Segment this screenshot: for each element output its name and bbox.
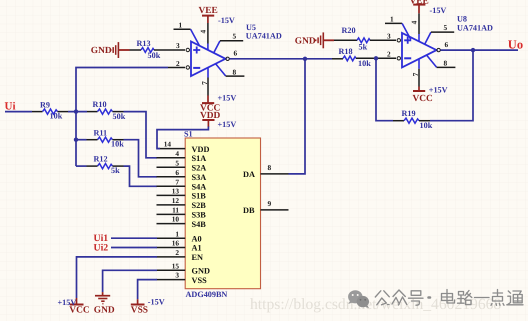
wire R13 to U5 pin3 [154,49,185,51]
svg-text:R11: R11 [94,128,108,137]
wire GND pin15 to ground [103,270,157,292]
svg-text:5k: 5k [111,166,120,175]
op-amp U8 [385,13,493,86]
svg-text:4: 4 [175,149,179,158]
svg-text:S3A: S3A [192,173,207,182]
wire Ui2 to A1 [111,247,157,249]
watermark url [250,296,501,313]
tong [507,291,523,305]
svg-text:VDD: VDD [192,145,210,154]
svg-text:VEE: VEE [199,6,218,16]
wire U8 output to Uo [441,49,519,51]
svg-text:Ui2: Ui2 [94,243,109,254]
dot [429,296,431,299]
pin 2 EN [157,248,204,262]
watermark text gongzhonghao dianlu yidiantong [375,290,523,306]
svg-text:S2A: S2A [192,164,207,173]
yi [475,297,490,299]
pin 1 stub U5 [174,28,191,30]
svg-text:10k: 10k [111,140,124,149]
svg-text:10k: 10k [358,59,371,68]
node junction DA drop [303,57,307,61]
resistor R13 [137,39,161,60]
svg-text:R19: R19 [402,109,416,118]
svg-text:-15V: -15V [148,297,165,306]
svg-text:R20: R20 [342,26,356,35]
wire R19 tap down [376,58,404,120]
wire junction down to DA pin8 [289,59,306,174]
svg-text:8: 8 [268,163,272,172]
svg-text:-15V: -15V [430,6,447,15]
pin 14 VDD [157,140,210,154]
svg-text:8: 8 [444,59,448,68]
pin 16 A1 [157,239,202,253]
gong [375,291,389,305]
svg-text:Uo: Uo [508,37,523,51]
pin 7 vertical U5 [207,68,209,78]
net label Ui2 [94,243,109,254]
wire R9 to node [58,111,98,113]
svg-text:VSS: VSS [192,276,208,285]
svg-text:3: 3 [175,271,179,280]
op-amp U5 [174,21,282,96]
power VDD above S1 [200,111,236,129]
pin 9 DB [243,199,289,215]
svg-text:+15V: +15V [218,120,237,129]
svg-text:4: 4 [199,29,208,33]
svg-text:9: 9 [268,199,272,208]
wire R12 to S4A pin7 [113,166,158,186]
svg-text:A0: A0 [192,234,202,243]
svg-text:S3B: S3B [192,211,207,220]
svg-text:UA741AD: UA741AD [457,24,493,33]
svg-text:S2B: S2B [192,201,207,210]
resistor R11 [94,128,125,148]
svg-text:5: 5 [444,23,448,32]
svg-text:6: 6 [234,49,238,58]
svg-text:1: 1 [175,229,179,238]
wire GND to R20 [334,39,357,41]
svg-text:UA741AD: UA741AD [246,32,282,41]
watermark wechat logo [348,290,369,308]
svg-text:7: 7 [200,81,209,85]
svg-text:10: 10 [172,215,180,224]
svg-text:2: 2 [176,59,180,68]
svg-text:R13: R13 [137,39,151,48]
svg-text:+15V: +15V [218,94,237,103]
pin 13 S1B [157,187,207,201]
svg-text:U8: U8 [457,14,467,23]
svg-text:+15V: +15V [58,298,77,307]
svg-text:13: 13 [172,187,180,196]
power VEE above U5 [199,6,235,25]
svg-text:DA: DA [243,170,255,179]
wire R20 to U8 pin3 [370,39,396,41]
svg-text:S1B: S1B [192,192,207,201]
svg-text:Ui: Ui [5,101,16,113]
multiplexer S1 ADG409BN [184,129,261,299]
hao [409,291,424,305]
svg-text:1: 1 [390,15,394,24]
power VEE above U8 [410,0,447,15]
svg-text:7: 7 [175,177,179,186]
wire VDD to pin14 [157,127,208,149]
wire R10 to S1A pin4 [113,112,158,158]
wire U5 output to R18 [230,58,344,60]
svg-text:R12: R12 [94,154,108,163]
pin 6 S3A [157,168,207,182]
pin 1 stub U8 [385,22,402,24]
wire R11 to S3A pin6 [113,140,158,177]
pin 1 A0 [157,229,202,243]
svg-text:DB: DB [243,206,255,215]
pin 4 vertical U8 [418,13,420,34]
svg-text:VCC: VCC [413,94,434,104]
pin 5 stub U8 [425,32,431,44]
pin 3 VSS [157,271,208,285]
svg-text:R18: R18 [339,47,353,56]
svg-text:R10: R10 [93,100,107,109]
svg-text:10k: 10k [50,111,63,120]
svg-text:5: 5 [175,158,179,167]
svg-text:GND: GND [91,46,112,56]
svg-text:ADG409BN: ADG409BN [186,290,228,299]
svg-text:8: 8 [233,67,237,76]
resistor R19 [402,109,433,130]
svg-text:10k: 10k [420,121,433,130]
ground GND left [91,42,130,58]
pin 15 GND [157,261,210,275]
pin 5 stub U5 [214,41,220,53]
svg-text:2: 2 [175,248,179,257]
svg-text:VSS: VSS [131,305,148,315]
resistor R10 [93,100,126,121]
pin 10 S4B [157,215,207,229]
svg-text:R9: R9 [40,101,50,110]
node junction R19 tap [374,56,378,60]
svg-text:11: 11 [172,206,179,215]
svg-text:A1: A1 [192,244,202,253]
svg-text:GND: GND [192,267,210,276]
wire Ui to R9 [5,111,43,113]
svg-text:5: 5 [233,32,237,41]
power VCC bottom left [58,298,90,315]
wire Ui1 to A0 [111,237,157,239]
power VCC below U5 [200,94,236,114]
svg-text:+15V: +15V [429,85,448,94]
pin 11 S3B [157,206,207,220]
resistor R12 [94,154,121,175]
wire R19 to output node [419,50,473,121]
svg-text:1: 1 [179,21,183,30]
resistor R18 [339,47,372,68]
wire node down bus [75,112,77,167]
zhong [392,290,407,305]
svg-text:3: 3 [176,41,180,50]
svg-text:12: 12 [172,196,180,205]
pin 8 stub U8 [427,55,437,67]
pin 5 S2A [157,158,207,172]
wire R18 to U8 pin2 [356,57,396,59]
resistor R20 [342,26,371,51]
ground GND bottom [94,292,115,315]
pin 7 vertical U8 [418,59,420,69]
svg-text:7: 7 [411,72,420,76]
wire R11 to bus [76,139,98,141]
node junction output [471,48,475,52]
pin 7 S4A [157,177,207,191]
svg-text:S1A: S1A [192,154,207,163]
net label Uo [508,37,523,51]
wire R12 to bus [76,165,98,167]
svg-text:50k: 50k [113,112,126,121]
dian [442,290,455,304]
svg-text:-15V: -15V [218,16,235,25]
svg-text:EN: EN [192,253,204,262]
wire EN to VCC bottom [77,257,158,298]
power VSS bottom [131,297,165,315]
svg-text:6: 6 [445,40,449,49]
resistor R9 [40,101,63,121]
svg-text:14: 14 [164,140,172,149]
diann [491,290,504,306]
ground GND middle [295,32,334,48]
svg-text:GND: GND [94,305,115,315]
pin 8 stub U5 [216,64,226,76]
wire VSS pin3 to VSS symbol [138,280,157,300]
svg-text:S1: S1 [184,129,193,138]
pin 4 S1A [157,149,207,163]
svg-text:4: 4 [410,20,419,24]
pin 8 DA [243,163,289,179]
svg-text:50k: 50k [148,51,161,60]
svg-text:3: 3 [387,32,391,41]
net label Ui1 [94,233,109,244]
pin 12 S2B [157,196,207,210]
wire node up to U5 inverting input [76,68,185,112]
svg-text:GND: GND [295,36,316,46]
lu [458,291,472,305]
wire GND to R13 [130,49,142,51]
node junction R9/R10 [74,109,78,113]
node junction R11 [74,138,78,142]
svg-text:6: 6 [175,168,179,177]
svg-text:16: 16 [172,239,180,248]
svg-text:5k: 5k [359,42,368,51]
svg-text:S4B: S4B [192,220,207,229]
net label Ui [5,101,16,113]
svg-text:S4A: S4A [192,183,207,192]
power VCC below U8 [413,85,448,104]
svg-text:15: 15 [172,261,180,270]
pin 4 vertical U5 [207,23,209,44]
svg-text:2: 2 [387,49,391,58]
